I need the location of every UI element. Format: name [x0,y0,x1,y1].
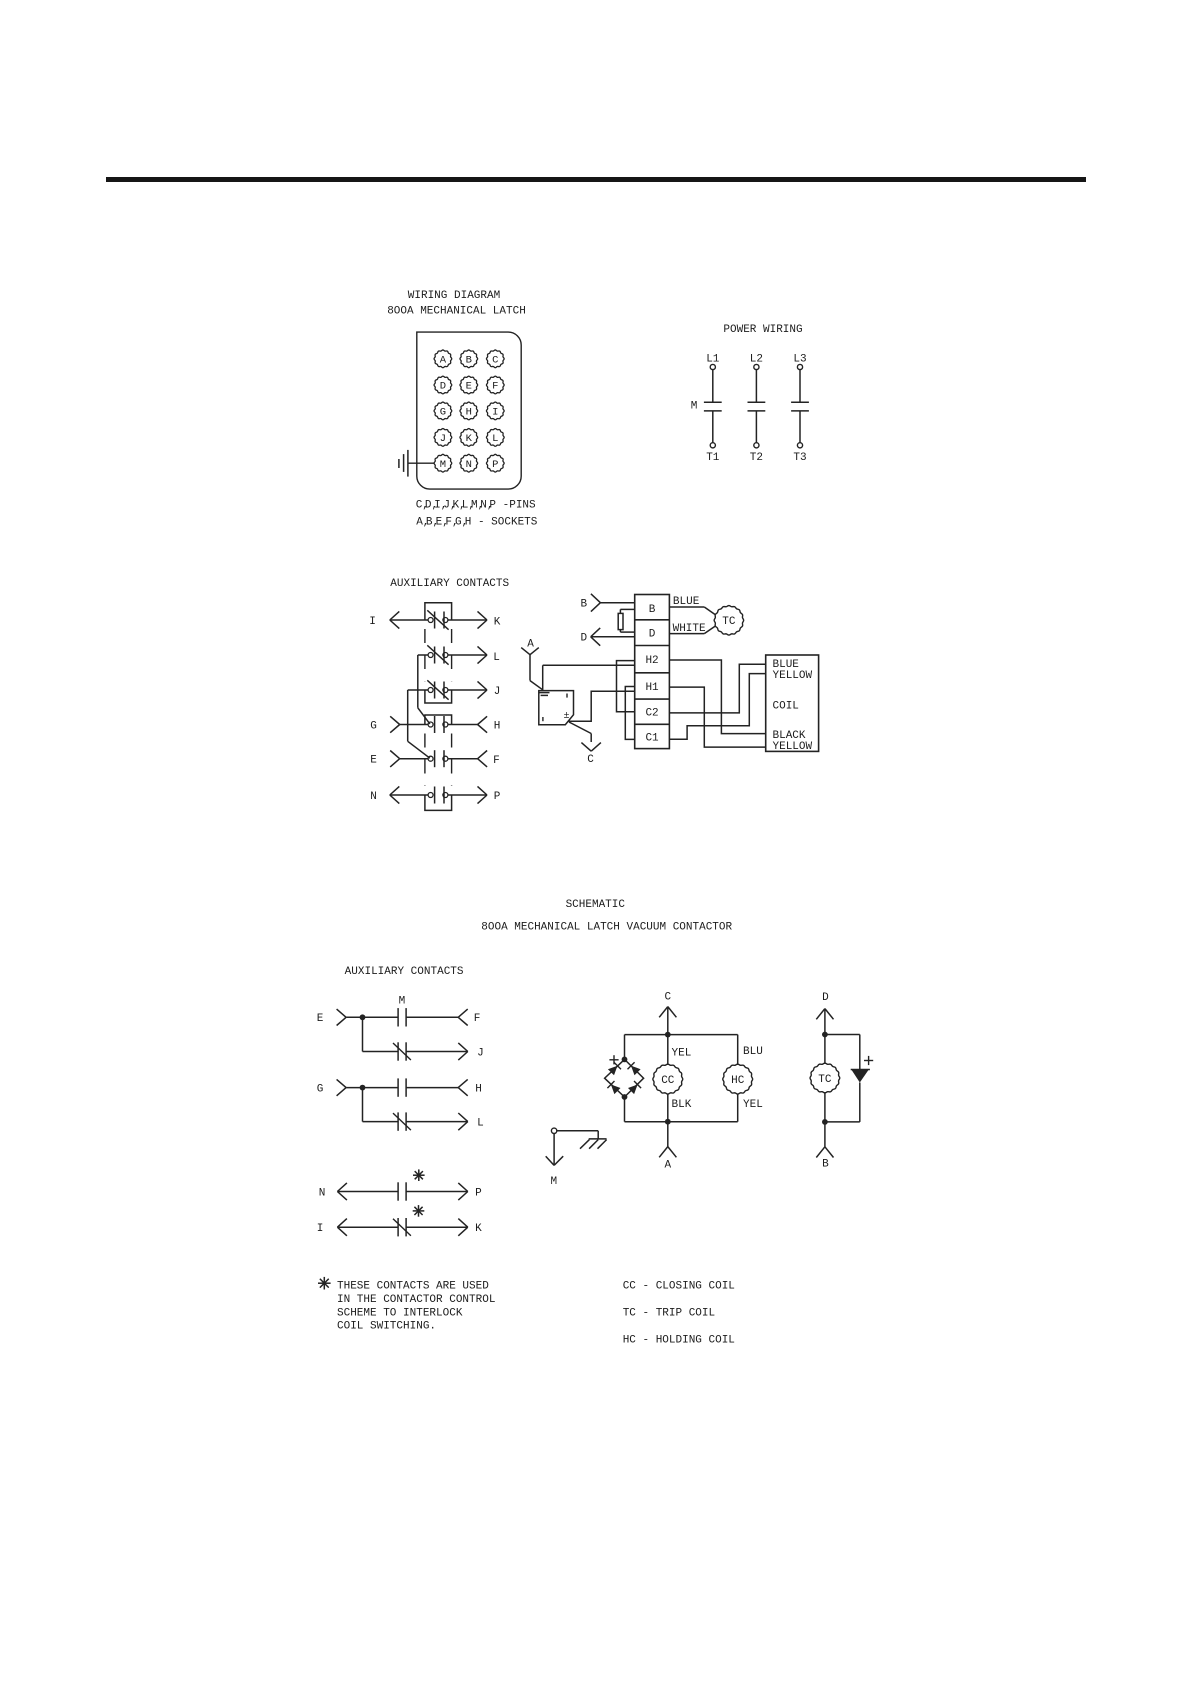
svg-text:E: E [466,381,472,393]
svg-text:K: K [475,1223,482,1235]
svg-text:WIRING DIAGRAM: WIRING DIAGRAM [408,290,500,302]
svg-text:8OOA MECHANICAL LATCH VACUUM C: 8OOA MECHANICAL LATCH VACUUM CONTACTOR [481,922,732,934]
svg-text:K: K [494,616,501,628]
svg-text:8OOA MECHANICAL LATCH: 8OOA MECHANICAL LATCH [387,305,526,317]
svg-text:B: B [580,599,587,611]
svg-text:C: C [492,354,498,366]
svg-text:BLUE: BLUE [673,596,700,608]
svg-text:BLU: BLU [743,1046,763,1058]
svg-text:YEL: YEL [672,1048,692,1060]
svg-text:C: C [587,754,594,766]
svg-text:F: F [474,1013,481,1025]
svg-text:POWER WIRING: POWER WIRING [723,324,802,336]
svg-text:I: I [492,407,498,419]
svg-text:M: M [550,1176,557,1188]
svg-text:H: H [475,1083,482,1095]
svg-text:P: P [475,1187,482,1199]
svg-text:±: ± [563,711,569,722]
svg-text:M: M [399,996,406,1008]
svg-text:A: A [664,1160,671,1172]
svg-text:I: I [317,1223,324,1235]
svg-text:E: E [370,755,377,767]
svg-text:H1: H1 [645,682,659,694]
svg-text:D: D [580,633,587,645]
svg-text:C1: C1 [645,732,659,744]
svg-text:J: J [494,686,501,698]
svg-text:D: D [822,992,829,1004]
svg-text:AUXILIARY CONTACTS: AUXILIARY CONTACTS [345,966,464,978]
svg-text:B: B [649,604,656,616]
svg-text:SCHEME TO INTERLOCK: SCHEME TO INTERLOCK [337,1307,463,1319]
svg-text:A,B,E,F,G,H - SOCKETS: A,B,E,F,G,H - SOCKETS [416,516,538,528]
svg-text:M: M [691,400,698,412]
svg-text:YEL: YEL [743,1099,763,1111]
svg-text:C,D,I,J,K,L,M,N,P -PINS: C,D,I,J,K,L,M,N,P -PINS [416,499,536,511]
svg-text:J: J [440,433,446,445]
svg-text:WHITE: WHITE [673,623,706,635]
svg-text:THESE CONTACTS ARE USED: THESE CONTACTS ARE USED [337,1280,489,1292]
svg-text:A: A [527,638,534,650]
svg-text:J: J [477,1047,484,1059]
svg-text:L: L [493,652,500,664]
svg-text:K: K [466,433,473,445]
svg-text:BLK: BLK [672,1099,692,1111]
svg-text:A: A [440,354,447,366]
svg-text:SCHEMATIC: SCHEMATIC [566,899,626,911]
svg-text:D: D [440,381,446,393]
svg-text:N: N [319,1187,326,1199]
svg-text:H: H [466,407,472,419]
svg-text:CC - CLOSING COIL: CC - CLOSING COIL [623,1280,735,1292]
svg-text:B: B [466,354,472,366]
svg-text:YELLOW: YELLOW [773,741,813,753]
svg-text:HC - HOLDING COIL: HC - HOLDING COIL [623,1334,735,1346]
svg-text:HC: HC [731,1075,745,1087]
svg-text:H: H [494,720,501,732]
svg-text:N: N [466,459,472,471]
svg-text:CC: CC [661,1075,675,1087]
svg-text:COIL SWITCHING.: COIL SWITCHING. [337,1321,436,1333]
svg-text:G: G [440,407,446,419]
svg-text:P: P [494,791,501,803]
svg-text:AUXILIARY CONTACTS: AUXILIARY CONTACTS [390,578,509,590]
svg-text:G: G [317,1083,324,1095]
svg-text:YELLOW: YELLOW [773,670,813,682]
svg-text:C: C [664,992,671,1004]
svg-text:B: B [822,1158,829,1170]
svg-text:M: M [440,459,446,471]
svg-text:T2: T2 [750,452,763,464]
svg-text:F: F [492,381,498,393]
svg-text:E: E [317,1013,324,1025]
svg-text:COIL: COIL [773,701,799,713]
svg-text:N: N [370,791,377,803]
svg-text:TC - TRIP COIL: TC - TRIP COIL [623,1307,715,1319]
svg-text:IN THE CONTACTOR CONTROL: IN THE CONTACTOR CONTROL [337,1294,495,1306]
svg-text:T3: T3 [793,452,806,464]
svg-text:H2: H2 [645,655,658,667]
svg-text:T1: T1 [706,452,720,464]
svg-text:F: F [493,755,500,767]
svg-text:I: I [369,616,376,628]
svg-text:L: L [492,433,498,445]
svg-text:TC: TC [722,616,736,628]
svg-text:C2: C2 [645,708,658,720]
svg-text:D: D [649,629,656,641]
svg-text:L: L [477,1117,484,1129]
svg-text:G: G [370,720,377,732]
svg-text:P: P [492,459,498,471]
svg-text:TC: TC [818,1074,832,1086]
